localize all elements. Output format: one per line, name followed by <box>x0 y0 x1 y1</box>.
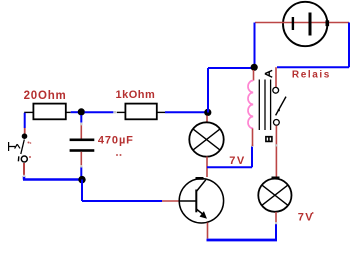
relay label B (rotated) <box>266 137 272 142</box>
lamp L1 circle <box>189 122 223 156</box>
switch S1 blade <box>21 140 25 155</box>
wire: switch corner vertical <box>24 113 26 128</box>
relay contact blade <box>276 97 286 116</box>
node J3 junction dot <box>204 109 211 116</box>
node J2 junction dot <box>78 176 85 183</box>
lamp L1 top terminal tick <box>203 122 211 125</box>
battery B1 short plate <box>292 17 294 30</box>
transistor Q1 emitter arrowhead <box>200 212 206 218</box>
capacitor C1 top lead <box>80 125 82 138</box>
endpoint marker <box>275 144 277 146</box>
resistor R2 right lead <box>157 111 165 113</box>
wire: contact B red stub down to lamp L2 <box>275 126 277 177</box>
endpoint marker <box>251 145 253 147</box>
resistor R2 left lead <box>117 111 126 113</box>
relay label A (rotated) <box>265 70 272 77</box>
node J1 junction dot <box>78 108 85 115</box>
lamp L2 top terminal tick <box>272 177 280 180</box>
relay coil top red stub <box>253 70 255 81</box>
wire: bottom rail <box>207 239 278 242</box>
capacitor C1 label dots <box>116 154 118 156</box>
svg-text:7V: 7V <box>298 212 314 224</box>
endpoint marker <box>80 166 82 168</box>
endpoint marker <box>80 123 82 125</box>
node: switch top junction dot <box>22 133 28 139</box>
wire: switch top red stub <box>24 128 26 134</box>
resistor R2 body <box>125 104 156 120</box>
wire: switch bottom red stub <box>23 163 25 176</box>
resistor R1 body <box>33 104 65 120</box>
wire: battery left down to J4 <box>254 23 256 66</box>
stray mark near L2 label <box>312 212 314 214</box>
wire: contact A red stub <box>275 67 277 87</box>
transistor Q1 circle <box>179 179 223 223</box>
battery B1 right terminal tick <box>326 20 330 26</box>
lamp L1 top red stub <box>206 116 208 123</box>
svg-text:7V: 7V <box>229 155 245 167</box>
capacitor C1 bottom plate <box>70 149 95 152</box>
switch S1 open contact circle <box>21 156 27 162</box>
wire: L2 blue down to bottom rail <box>275 223 277 239</box>
wire: R2 to node J3 <box>165 111 205 113</box>
capacitor C1 bottom lead <box>80 152 82 165</box>
relay coil K1 <box>248 81 253 129</box>
relay contact top circle <box>273 87 279 93</box>
endpoint marker <box>275 222 277 224</box>
wire: L1 bottom / collector red stub <box>206 157 208 178</box>
wire: J3 up and right to battery-left node J4 <box>208 68 252 113</box>
wire: J2 down and right to transistor base <box>82 180 162 202</box>
wire: base red stub <box>162 200 179 202</box>
lamp L1 X <box>193 129 220 150</box>
switch S1 red marks <box>28 142 30 144</box>
wire: collector node to relay coil bottom <box>207 146 252 167</box>
wire: J1 down to C1 <box>80 115 82 123</box>
relay coil bottom red stub <box>252 129 254 147</box>
transistor Q1 base line <box>179 200 196 202</box>
svg-text:1kOhm: 1kOhm <box>116 89 156 101</box>
wire: L2 bottom red stub <box>275 212 277 223</box>
transistor Q1 base bar <box>195 190 197 213</box>
relay contact bottom circle <box>274 120 280 126</box>
wire: R1 to node J1 <box>71 111 79 113</box>
wire: battery right down to contact rail <box>277 23 349 68</box>
capacitor C1 top plate <box>70 139 95 142</box>
wire: J1 to R2 <box>85 111 114 113</box>
svg-text:470µF: 470µF <box>98 134 134 146</box>
battery B1 circle <box>283 2 327 46</box>
endpoint marker <box>23 175 25 177</box>
node J4 junction dot <box>251 64 258 71</box>
battery B1 long plate <box>309 13 312 36</box>
resistor R1 right lead <box>66 111 71 113</box>
endpoint marker <box>114 111 116 113</box>
relay core lines <box>259 80 270 131</box>
transistor Q1 collector lead <box>196 180 206 192</box>
battery B1 red line <box>255 22 349 24</box>
wire: bottom-left blue corner to rail <box>23 176 82 180</box>
wire: emitter red stub <box>207 223 209 239</box>
switch S1 actuator <box>9 142 20 151</box>
lamp L2 X <box>262 185 288 205</box>
lamp L2 circle <box>258 179 291 212</box>
switch S1 lower terminal dash <box>17 156 19 161</box>
svg-text:Relais: Relais <box>292 69 331 80</box>
transistor Q1 emitter lead <box>196 209 204 216</box>
relay contact blade pivot <box>278 109 280 111</box>
resistor R1 left lead <box>24 111 33 113</box>
svg-text:20Ohm: 20Ohm <box>24 90 67 102</box>
transistor Q1 collector terminal tick <box>196 177 204 180</box>
wire: C1 to node J2 <box>80 168 82 177</box>
